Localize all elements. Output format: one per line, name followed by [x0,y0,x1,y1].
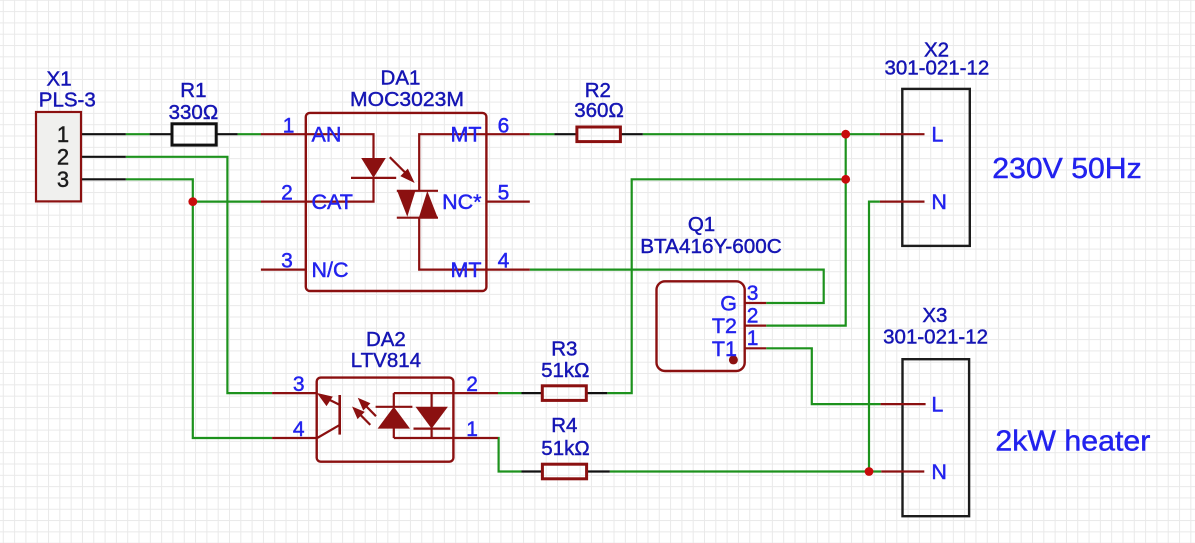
junction L-rail NC row [841,175,850,184]
svg-text:DA2: DA2 [366,328,406,351]
svg-text:N: N [931,190,947,214]
svg-text:3: 3 [281,250,293,273]
wire node to R3 right lead [607,179,845,393]
svg-text:3: 3 [293,373,305,396]
wire R1 left lead [150,133,171,135]
junction X1.3/CAT node [188,197,197,206]
svg-text:2: 2 [466,373,478,396]
svg-text:T1: T1 [712,337,737,361]
svg-text:6: 6 [498,114,510,137]
resistor R2 body [577,127,621,142]
svg-text:1: 1 [283,114,295,137]
resistor R1 body [172,124,216,145]
wire R2 to X2.L [643,133,880,135]
svg-text:N/C: N/C [312,258,349,282]
DA2 light arrow 2 [356,411,370,425]
svg-text:N: N [931,460,947,484]
svg-text:230V 50Hz: 230V 50Hz [992,153,1141,185]
svg-text:CAT: CAT [312,190,353,214]
svg-text:51kΩ: 51kΩ [541,359,589,382]
wire R2 left lead [554,133,576,135]
wire X1 pin1 stub [81,133,126,135]
svg-text:301-021-12: 301-021-12 [884,57,989,80]
DA2 internal back-to-back LEDs [376,393,454,438]
svg-text:PLS-3: PLS-3 [39,89,96,112]
svg-text:Q1: Q1 [688,213,715,236]
triac Q1 body [657,281,767,371]
svg-text:LTV814: LTV814 [351,349,421,372]
svg-text:DA1: DA1 [381,66,421,89]
svg-text:4: 4 [498,250,510,273]
svg-text:1: 1 [747,327,759,350]
wire R3 left lead [522,392,542,394]
wire X1 pin3 stub [81,178,126,180]
wire R3 right lead [587,392,607,394]
svg-text:BTA416Y-600C: BTA416Y-600C [640,235,782,258]
Q1 pin1 marker dot [729,355,738,364]
junction L-rail at R2 output [841,130,850,139]
DA1 internal LED [306,134,396,201]
svg-text:2kW heater: 2kW heater [995,426,1150,458]
wire Q1.T1 to X3.L [766,348,880,404]
DA2 light arrow 1 [362,402,376,416]
svg-text:AN: AN [312,123,342,147]
wire R4 left lead [522,470,542,472]
svg-text:R3: R3 [551,337,577,360]
wire R1 to DA1.AN [238,133,262,135]
svg-text:X3: X3 [922,304,947,327]
svg-text:L: L [931,393,943,417]
svg-text:R4: R4 [551,414,577,437]
connector X3 body [881,359,970,516]
svg-text:2: 2 [747,304,759,327]
svg-text:4: 4 [293,418,305,441]
wire R4 to X3.N [610,470,882,472]
wire R2 right lead [621,133,642,135]
svg-text:1: 1 [57,122,69,147]
svg-text:51kΩ: 51kΩ [541,437,589,460]
svg-text:G: G [720,292,737,316]
wire X1.2 to DA2.3 [126,157,272,393]
svg-text:5: 5 [498,182,510,205]
svg-text:MT: MT [450,258,481,282]
svg-text:T2: T2 [712,314,737,338]
svg-text:1: 1 [466,418,478,441]
svg-text:301-021-12: 301-021-12 [883,326,988,349]
svg-text:3: 3 [57,167,69,192]
connector X1 body [36,112,81,201]
svg-text:2: 2 [281,182,293,205]
wire L-rail down to Q1.T2 [766,134,846,325]
wire X1.3 to junction [126,179,193,201]
svg-text:360Ω: 360Ω [574,99,624,122]
wire DA2.1 to R4 [498,438,522,472]
wire R4 right lead [588,470,610,472]
wire DA1.MT6 to R2 [530,133,555,135]
DA1 light arrow [390,157,407,174]
wire X1.1 to R1 [126,133,150,135]
svg-text:L: L [931,123,943,147]
wire junction to DA1.CAT [193,201,261,203]
wire junction down to DA2.4 [193,202,272,438]
svg-text:NC*: NC* [442,190,482,214]
DA2 internal phototransistor [317,395,340,438]
svg-text:X1: X1 [47,68,72,91]
connector X2 body [880,89,970,246]
opto-triac DA1 body [261,113,530,291]
svg-text:2: 2 [57,145,69,170]
svg-text:3: 3 [747,282,759,305]
svg-text:R1: R1 [180,79,206,102]
DA1 internal triac [397,134,487,269]
wire X2.N down to X3.N rail [869,202,880,472]
junction N-rail at X3.N [865,467,874,476]
svg-text:330Ω: 330Ω [169,101,219,124]
wire X1 pin2 stub [81,156,126,158]
resistor R3 body [542,386,586,401]
optocoupler DA2 body [272,378,498,462]
resistor R4 body [542,464,586,479]
wire DA2.2 to R3 [498,392,522,394]
svg-text:MT: MT [450,123,481,147]
wire R1 right lead [217,133,237,135]
wire DA1.MT4 to Q1.G [530,270,824,303]
svg-text:MOC3023M: MOC3023M [350,88,464,111]
